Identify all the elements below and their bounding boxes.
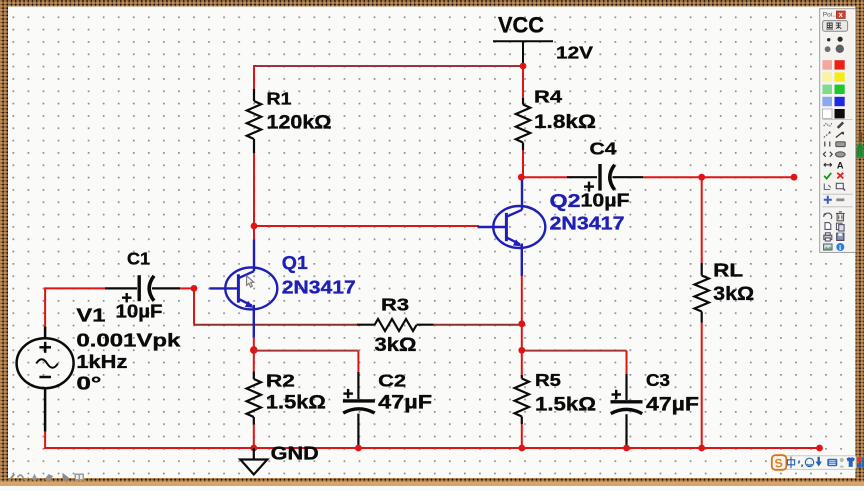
wire VCC to R4 (522, 66, 524, 98)
svg-text:RL: RL (713, 260, 743, 280)
wire base rail to Q2 (254, 225, 479, 227)
wire R1 bottom to base-rail junction (253, 153, 255, 226)
wire junction down to R3 (193, 288, 195, 324)
transistor Q1 (210, 240, 278, 338)
svg-text:R3: R3 (381, 294, 409, 314)
node junction R3/Q2 emitter (518, 320, 525, 327)
svg-text:Q1: Q1 (282, 253, 308, 273)
resistor R3 (375, 319, 417, 331)
node junction C2 bottom (355, 445, 362, 452)
svg-text:0°: 0° (76, 374, 101, 394)
svg-text:12V: 12V (556, 42, 593, 62)
node junction RL top (698, 174, 705, 181)
svg-text:Q2: Q2 (550, 191, 581, 211)
svg-text:Poi...: Poi... (823, 12, 838, 19)
wire V1 bottom (44, 432, 46, 449)
label C1 plus (122, 297, 132, 299)
svg-text:C2: C2 (378, 370, 406, 390)
capacitor C2 (357, 372, 359, 399)
node junction R1/Q1 collector (251, 223, 258, 230)
wire junction down to R2 (253, 350, 255, 371)
svg-text:C3: C3 (646, 370, 670, 390)
svg-text:R2: R2 (266, 370, 295, 390)
wire Q2 emitter down (521, 276, 523, 324)
palette tool icons (823, 122, 853, 253)
node junction VCC (520, 63, 527, 70)
node junction C1/Q1 base (191, 285, 198, 292)
svg-text:3kΩ: 3kΩ (713, 284, 754, 305)
wire junction to C2 (254, 350, 359, 352)
svg-text:i: i (839, 244, 841, 252)
node junction R5 bottom (518, 445, 525, 452)
node junction R5 top (518, 347, 525, 354)
wire C4 to output (613, 176, 644, 178)
resistor R5 (521, 375, 523, 379)
resistor RL (701, 263, 703, 276)
annotation palette panel (820, 9, 856, 253)
palette exit button (823, 21, 848, 32)
svg-text:R4: R4 (534, 86, 562, 106)
sogou input bar (784, 456, 856, 470)
svg-text:120kΩ: 120kΩ (267, 112, 332, 133)
sogou logo (772, 455, 787, 470)
wire Q2 emitter to C3 (522, 350, 627, 352)
svg-text:V1: V1 (76, 305, 105, 325)
svg-text:0.001Vpk: 0.001Vpk (76, 331, 181, 351)
wire Q1 emitter to junction (253, 337, 255, 350)
decorative frame (0, 0, 864, 7)
svg-text:VCC: VCC (498, 13, 544, 38)
svg-text:x: x (839, 12, 843, 19)
wire R3 right segment (434, 324, 522, 326)
resistor R2 (253, 372, 255, 380)
resistor R1 (253, 89, 255, 101)
svg-text:C4: C4 (590, 139, 617, 159)
plant icon right edge (859, 132, 862, 142)
node junction Q1 emitter (250, 346, 258, 354)
wire R1 top (253, 65, 255, 89)
svg-text:2N3417: 2N3417 (282, 277, 356, 297)
sogou icons (787, 457, 864, 469)
label C2 plus (343, 392, 353, 394)
svg-text:10µF: 10µF (581, 191, 630, 211)
wire RL top (701, 177, 703, 263)
node output wire end (791, 174, 798, 181)
node junction C3 bottom (623, 445, 630, 452)
svg-text:R1: R1 (267, 88, 292, 108)
recorder toolbar icons bottom-left (9, 473, 85, 483)
node bottom wire end (816, 445, 823, 452)
cursor (247, 276, 254, 287)
node VCC power symbol (493, 40, 553, 42)
wire R4 bottom (522, 150, 524, 177)
svg-text:1.5kΩ: 1.5kΩ (266, 393, 326, 414)
svg-text:1.8kΩ: 1.8kΩ (534, 112, 596, 133)
wire bottom rail (45, 447, 819, 449)
wire Q1 collector (253, 226, 255, 240)
svg-text:R5: R5 (535, 370, 561, 390)
wire R3 left segment (194, 324, 357, 326)
label C3 plus (612, 393, 622, 395)
wire junction to C4 (521, 176, 567, 178)
capacitor C1 (137, 275, 140, 301)
ground (253, 448, 255, 460)
palette pen size dots (827, 38, 830, 41)
node junction GND (250, 445, 257, 452)
node junction Q2 collector (518, 174, 525, 181)
svg-text:GND: GND (271, 444, 319, 464)
svg-text:47µF: 47µF (646, 395, 699, 416)
transistor Q2 (478, 180, 546, 276)
resistor R4 (522, 98, 524, 105)
node junction RL bottom (698, 445, 705, 452)
svg-text:1kHz: 1kHz (76, 352, 127, 372)
source V1 (17, 326, 74, 431)
svg-text:47µF: 47µF (378, 393, 432, 414)
capacitor C4 (598, 164, 601, 191)
svg-text:3kΩ: 3kΩ (375, 335, 417, 356)
palette color swatches (822, 60, 832, 69)
wire V1 top (44, 287, 46, 326)
svg-text:10µF: 10µF (116, 301, 163, 321)
svg-text:A: A (837, 161, 844, 172)
svg-text:2N3417: 2N3417 (550, 213, 625, 233)
svg-text:1.5kΩ: 1.5kΩ (535, 395, 596, 416)
svg-text:C1: C1 (127, 249, 150, 269)
label C4 plus (584, 185, 594, 187)
wire top rail R1 to VCC (254, 65, 523, 67)
wire V1 to C1 (45, 287, 105, 289)
capacitor C3 (625, 374, 627, 400)
